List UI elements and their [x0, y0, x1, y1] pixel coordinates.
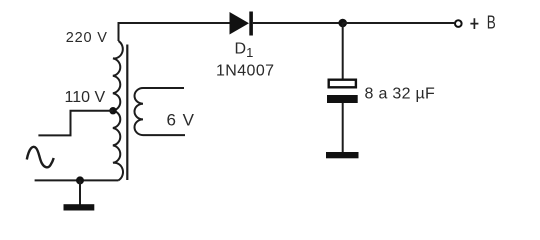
wire 110V tap step [38, 111, 113, 136]
svg-text:D1: D1 [235, 41, 254, 61]
AC source symbol [27, 147, 54, 168]
node bottom junction [76, 176, 84, 184]
wire secondary top lead [143, 87, 184, 89]
label + B [470, 18, 478, 29]
svg-text:8 a 32 µF: 8 a 32 µF [365, 85, 436, 102]
wire diode cathode to junction [253, 22, 343, 24]
terminal +B open circle [455, 20, 462, 27]
wire secondary bottom lead [143, 134, 185, 136]
svg-text:6 V: 6 V [167, 110, 196, 129]
ground left [64, 204, 95, 210]
svg-text:110 V: 110 V [65, 89, 106, 106]
svg-text:B: B [487, 12, 496, 32]
ground right [326, 152, 359, 158]
diode D1 [230, 12, 253, 36]
wire top-left from transformer primary top to diode anode [119, 23, 230, 41]
wire bottom-left to primary bottom [35, 179, 119, 181]
wire junction to capacitor [342, 23, 344, 79]
capacitor C1 bottom plate [327, 95, 358, 103]
svg-text:1N4007: 1N4007 [216, 62, 274, 79]
wire capacitor to ground [342, 103, 344, 153]
transformer core [126, 45, 128, 181]
wire junction to output terminal [343, 22, 455, 24]
node 110V tap dot [109, 107, 116, 114]
wire bottom junction to ground [79, 180, 81, 204]
capacitor C1 top plate [329, 80, 356, 88]
transformer secondary winding [134, 88, 143, 135]
node junction top [338, 19, 347, 28]
svg-text:220 V: 220 V [66, 30, 108, 46]
transformer T1 primary winding [113, 41, 123, 180]
